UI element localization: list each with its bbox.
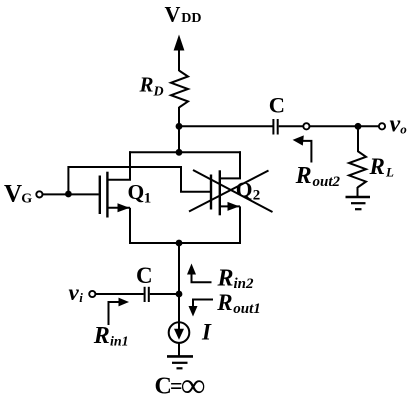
svg-text:i: i [79, 290, 83, 305]
wire capacitor to open terminal [279, 125, 304, 127]
svg-text:G: G [21, 191, 32, 206]
arrow R_in1 [109, 298, 130, 325]
svg-text:C: C [136, 263, 153, 288]
svg-text:R: R [295, 163, 312, 189]
svg-text:V: V [165, 1, 181, 26]
junction dot v_i node [176, 291, 183, 298]
label V_G [4, 181, 32, 208]
wire input capacitor to source node [150, 293, 179, 295]
junction dot V_G node [65, 191, 72, 198]
label C=infinity [155, 367, 206, 404]
terminal open circle after C [303, 123, 309, 129]
svg-text:DD: DD [181, 11, 201, 26]
svg-text:R: R [216, 290, 232, 315]
wire output node down to R_L [357, 126, 359, 151]
resistor R_L [349, 151, 366, 188]
wire drain node to capacitor C [179, 125, 273, 127]
X cross over Q2 [189, 170, 273, 212]
wire Q1 source down to source rail [129, 208, 131, 244]
arrow R_out2 [293, 135, 312, 162]
arrow R_in2 [187, 264, 212, 283]
wire Q2 drain to rail [220, 151, 240, 178]
wire drain rail Q1-Q2 [129, 151, 241, 153]
wire terminal to v_o [310, 125, 379, 127]
current source I [169, 322, 190, 343]
label Q1 [128, 180, 152, 207]
V_DD supply arrow [174, 35, 185, 72]
svg-text:o: o [400, 122, 407, 137]
label R_out2 [295, 163, 341, 190]
label R_in1 [93, 323, 129, 349]
wire R_D bottom to drain rail [178, 107, 180, 152]
wire V_G to Q1 gate [43, 193, 99, 195]
svg-text:out1: out1 [233, 301, 261, 317]
arrow R_out1 [189, 300, 214, 317]
node drain junction dot [176, 123, 183, 130]
ground under R_L [346, 197, 371, 209]
svg-text:V: V [4, 181, 22, 208]
wire source rail down to current source [178, 243, 180, 323]
svg-text:in1: in1 [110, 334, 129, 349]
resistor R_D [171, 71, 188, 108]
svg-text:D: D [153, 85, 164, 100]
transistor Q1 [100, 172, 130, 218]
svg-text:∞: ∞ [181, 367, 205, 404]
svg-text:R: R [93, 323, 110, 349]
label Q2 [236, 177, 260, 203]
terminal V_G open circle [36, 191, 42, 197]
wire v_i to input capacitor [95, 293, 144, 295]
svg-text:R: R [139, 73, 154, 97]
label R_D [139, 73, 164, 100]
label R_in2 [217, 265, 255, 292]
svg-text:v: v [390, 112, 401, 138]
svg-text:I: I [201, 320, 212, 345]
capacitor C (output coupling) [273, 119, 277, 135]
node output junction dot [355, 123, 362, 130]
svg-text:Q: Q [128, 180, 145, 204]
svg-text:out2: out2 [313, 174, 341, 190]
svg-text:C: C [269, 92, 285, 117]
wire Q1 drain to rail [107, 151, 130, 180]
wire Q2 source down to source rail [239, 206, 241, 244]
transistor Q2 [211, 170, 240, 215]
wire current source to ground [178, 343, 180, 356]
power supply V_DD label [165, 1, 202, 26]
terminal v_o open circle [379, 123, 385, 129]
svg-text:R: R [369, 154, 385, 179]
junction dot source rail [176, 240, 183, 247]
svg-text:R: R [217, 265, 234, 291]
wire source rail [129, 242, 241, 244]
ground under current source [167, 356, 193, 368]
junction dot drain rail [176, 149, 183, 156]
svg-text:L: L [385, 165, 394, 180]
svg-text:v: v [69, 280, 80, 305]
label v_o [390, 112, 408, 138]
svg-text:1: 1 [144, 191, 152, 207]
label R_out1 [216, 290, 261, 317]
label R_L [369, 154, 395, 180]
terminal v_i open circle [89, 291, 95, 297]
wire R_L to ground [357, 187, 359, 196]
capacitor C (input coupling) [145, 287, 149, 302]
svg-text:in2: in2 [234, 276, 255, 292]
wire V_G node up and across to Q2 gate [68, 167, 210, 194]
label v_i [69, 280, 84, 305]
